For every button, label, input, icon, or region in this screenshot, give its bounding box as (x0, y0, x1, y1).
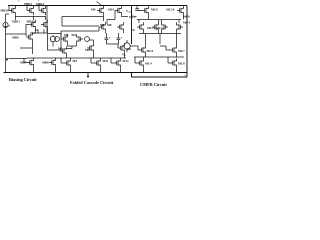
transistor M6 (118, 43, 124, 53)
svg-text:MC2: MC2 (147, 26, 154, 30)
transistor MC9 (142, 6, 148, 16)
svg-text:I: I (9, 24, 11, 28)
svg-text:M11: M11 (103, 59, 109, 63)
svg-text:M9: M9 (91, 8, 96, 12)
svg-text:M1: M1 (64, 33, 69, 37)
transistor MC10 (177, 6, 183, 16)
svg-text:+: + (109, 36, 111, 40)
transistor M3 (64, 58, 70, 68)
transistor M0 (60, 46, 66, 56)
svg-text:MC8: MC8 (178, 62, 185, 66)
transistor M9 (97, 6, 103, 16)
wire cascode mid interconnect (61, 27, 123, 38)
bias source Vb3 cap (117, 33, 121, 44)
svg-text:MB9: MB9 (12, 35, 19, 39)
svg-text:MB11: MB11 (12, 20, 20, 24)
svg-text:CMFB Circuit: CMFB Circuit (140, 82, 167, 87)
svg-text:MB12: MB12 (24, 2, 33, 6)
transistor M8 (117, 22, 123, 32)
svg-text:MC7: MC7 (178, 49, 185, 53)
transistor MB13 (41, 20, 47, 30)
svg-text:Folded Cascode Circuit: Folded Cascode Circuit (70, 80, 114, 85)
svg-text:+: + (121, 36, 123, 40)
transistor M1 (61, 34, 67, 44)
transistor M2 (77, 34, 83, 44)
transistor MB10 (9, 6, 15, 17)
bias source Vbias cap (135, 6, 142, 11)
transistor M12 (114, 58, 120, 68)
transistor MB14 (39, 6, 45, 16)
wire cascode bottom leads (61, 58, 120, 73)
wire bottom VSS rail (4, 72, 188, 74)
transistor MB7 (27, 58, 33, 68)
svg-text:MB8: MB8 (42, 61, 49, 65)
transistor MC8 (137, 58, 143, 68)
ground arrow VSS (87, 73, 89, 77)
transistor M5 (87, 43, 93, 53)
wire biasing lower interconnect (20, 29, 48, 54)
transistor MB12 (27, 6, 33, 16)
svg-text:MC10: MC10 (166, 8, 175, 12)
wire CMFB bottom leads (135, 57, 176, 73)
wire CMFB upper interconnect (137, 6, 183, 24)
wire cascode to CMFB (132, 29, 136, 31)
wire diff pair tail (66, 44, 76, 49)
transistor MB8 (49, 58, 55, 68)
transistor M11 (94, 58, 100, 68)
wire CMFB row3 leads (134, 34, 184, 58)
svg-text:M8: M8 (107, 23, 112, 27)
svg-text:MC6: MC6 (147, 49, 154, 53)
svg-text:M0: M0 (58, 47, 63, 51)
wire biasing mid interconnect (6, 14, 48, 36)
input source Vin- (85, 37, 90, 42)
transistor MC2 (152, 22, 158, 32)
bias source Vb2 cap (105, 33, 109, 44)
svg-text:MC4: MC4 (183, 21, 190, 25)
svg-text:M10: M10 (108, 8, 114, 12)
wire right border (186, 6, 188, 78)
transistor M10 (115, 6, 121, 16)
wire CMFB box bottom (132, 73, 188, 78)
label VDD slash (97, 2, 102, 6)
wire CMFB row3 interconnect (130, 46, 170, 50)
svg-text:MC1: MC1 (129, 15, 136, 19)
wire cascode lower interconnect (55, 40, 126, 59)
svg-text:MC8: MC8 (183, 15, 190, 19)
svg-text:M7: M7 (100, 23, 105, 27)
svg-text:MC9: MC9 (151, 8, 158, 12)
voltage source box Vb1 (48, 34, 62, 51)
wire biasing bottom interconnect (6, 58, 55, 73)
svg-text:MC3: MC3 (156, 26, 163, 30)
svg-text:MB13: MB13 (27, 20, 36, 24)
svg-text:M4: M4 (73, 59, 78, 63)
transistor MC3 (162, 22, 168, 32)
speck (38, 0, 39, 2)
speck (18, 0, 19, 2)
transistor MB11 (29, 20, 35, 30)
svg-text:M12: M12 (123, 59, 129, 63)
transistor MC7 (170, 45, 176, 55)
svg-text:+: + (50, 37, 52, 41)
svg-text:Biasing Circuit: Biasing Circuit (9, 77, 37, 82)
wire CMFB mid interconnect (139, 32, 181, 44)
speck (185, 75, 186, 76)
wire VDD top rail (8, 5, 187, 7)
transistor MC45 (177, 22, 183, 32)
wire biasing row1 interconnect (9, 6, 45, 21)
svg-text:MB14: MB14 (36, 2, 45, 6)
source Vb circle (124, 40, 130, 52)
current source Isc (3, 14, 8, 73)
input source Vin+ (55, 37, 60, 42)
transistor MC6 (139, 45, 145, 55)
transistor MB9 (26, 32, 32, 42)
transistor M7 (99, 22, 105, 32)
wire cascode upper interconnect (47, 6, 128, 34)
svg-text:M2: M2 (72, 33, 77, 37)
svg-text:Vb: Vb (122, 53, 126, 58)
svg-text:M5: M5 (85, 48, 90, 52)
wire CMFB box left (131, 6, 133, 45)
transistor MC9 (170, 58, 176, 68)
svg-text:MC4: MC4 (145, 62, 152, 66)
transistor MC1 (137, 22, 143, 32)
svg-text:MB10: MB10 (1, 9, 10, 13)
